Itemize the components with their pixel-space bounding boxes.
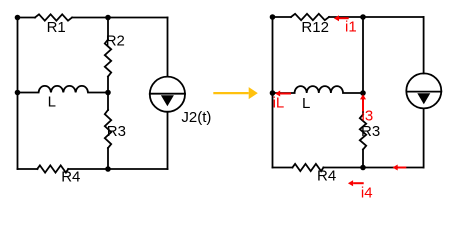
resistor R3 right circuit xyxy=(360,115,366,150)
svg-text:R1: R1 xyxy=(47,19,66,36)
svg-text:R4: R4 xyxy=(61,168,80,185)
current arrow i4 below wire xyxy=(348,180,364,186)
inductor L left circuit xyxy=(18,86,109,93)
svg-text:R4: R4 xyxy=(317,168,336,185)
wire: right circuit bottom right segment xyxy=(323,167,423,169)
wire: right circuit top left segment xyxy=(273,16,292,18)
wire: left circuit bottom left segment xyxy=(18,168,38,170)
wire: right circuit top right segment xyxy=(329,16,424,18)
wire: right circuit left vertical xyxy=(272,17,274,168)
svg-text:R12: R12 xyxy=(301,19,329,36)
node: left circuit top-middle xyxy=(105,15,111,21)
inductor L right circuit xyxy=(273,86,364,93)
svg-text:R2: R2 xyxy=(106,33,125,50)
node: right circuit top-left xyxy=(270,14,276,20)
node: left circuit bottom-middle xyxy=(105,166,111,172)
resistor R3 left circuit xyxy=(105,110,111,148)
wire: left circuit left vertical xyxy=(17,18,19,170)
wire: right circuit bottom left segment xyxy=(273,167,293,169)
svg-text:L: L xyxy=(302,95,310,112)
resistor R12 xyxy=(291,14,329,20)
node: left circuit middle-right xyxy=(105,90,111,96)
current source right chord xyxy=(406,91,441,93)
svg-text:R3: R3 xyxy=(361,123,380,140)
svg-text:i3: i3 xyxy=(362,108,374,125)
wire: right circuit right vertical upper xyxy=(423,17,425,73)
resistor R2 xyxy=(105,40,111,77)
resistor R4 left circuit xyxy=(37,165,68,172)
current source J2(t) circle xyxy=(150,77,185,112)
node: left circuit middle-left xyxy=(15,90,21,96)
current arrow i4 on wire xyxy=(393,165,407,171)
wire: left circuit top right segment xyxy=(72,17,167,19)
node: left circuit top-left xyxy=(15,15,21,21)
svg-text:i1: i1 xyxy=(345,19,357,36)
node: right circuit top-middle xyxy=(360,14,366,20)
current arrow iL xyxy=(275,91,291,97)
current arrow i1 xyxy=(334,15,349,21)
current source J2(t) arrow triangle xyxy=(161,95,174,106)
current source J2(t) chord xyxy=(150,93,185,95)
wire: left circuit bottom right segment xyxy=(68,168,167,170)
wire: inductor node to R3 right xyxy=(362,93,364,115)
svg-text:J2(t): J2(t) xyxy=(181,109,211,126)
svg-text:L: L xyxy=(48,94,56,111)
yellow transform arrow xyxy=(213,87,257,99)
current source right arrow triangle xyxy=(417,93,430,104)
wire: right circuit right vertical lower xyxy=(423,108,425,167)
svg-text:i4: i4 xyxy=(361,184,373,201)
node: right circuit middle-left xyxy=(270,90,276,96)
resistor R4 right circuit xyxy=(292,164,323,171)
wire: R3 right to bottom node xyxy=(362,150,364,168)
current source right circle xyxy=(406,73,441,108)
wire: left circuit right vertical upper xyxy=(167,18,169,77)
node: right circuit middle-right xyxy=(360,90,366,96)
wire: inductor node to R3 xyxy=(107,93,109,111)
svg-text:R3: R3 xyxy=(107,123,126,140)
current arrow i3 xyxy=(360,94,366,111)
node: right circuit bottom-middle xyxy=(360,165,366,171)
wire: R2 to inductor node xyxy=(107,77,109,93)
svg-text:iL: iL xyxy=(273,94,285,111)
wire: left circuit right vertical lower xyxy=(167,112,169,169)
resistor R1 xyxy=(35,14,72,20)
wire: left circuit middle vertical upper (to R2) xyxy=(107,18,109,40)
wire: left circuit top left segment xyxy=(18,17,36,19)
wire: R3 to bottom node xyxy=(107,148,109,169)
wire: right circuit middle vertical upper xyxy=(362,17,364,93)
